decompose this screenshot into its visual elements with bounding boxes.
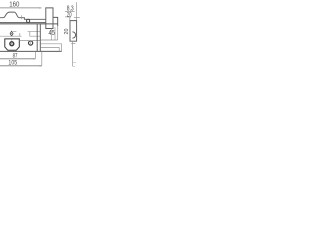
arrow 105 <box>40 65 42 66</box>
bolt protrusion side view <box>53 17 58 26</box>
extension line x41.8 <box>41 52 43 66</box>
dim hook y43.8 <box>41 44 62 52</box>
dim hook y47.5 <box>41 48 60 52</box>
dimension line 160 <box>0 7 42 9</box>
side section box <box>70 21 77 42</box>
svg-text:5: 5 <box>52 28 55 37</box>
cylinder center dot <box>11 43 12 44</box>
screw circle right <box>29 41 33 45</box>
svg-text:20: 20 <box>64 29 70 35</box>
arrow right of 160 line <box>39 7 41 8</box>
screw center dot <box>30 43 31 44</box>
knob arc in section <box>72 32 75 38</box>
plan view bottom edge <box>0 22 46 24</box>
bottom tick on centerline <box>73 63 77 67</box>
arrow 87 <box>33 58 35 59</box>
side view case box <box>46 8 53 29</box>
dim line under 8,3 <box>65 10 75 12</box>
dimension line 105 <box>0 65 42 67</box>
front view top edge <box>0 23 58 25</box>
extension vertical x69.8 <box>69 14 71 21</box>
seam line y40.6 <box>19 40 40 42</box>
keyway tick above cylinder <box>11 39 13 40</box>
diamond center dot <box>11 33 12 34</box>
cylinder shield plate <box>5 39 19 50</box>
dimension line 87 <box>0 58 35 60</box>
dim line y17.6 right <box>74 17 80 19</box>
plan view top profile with dome <box>0 12 46 19</box>
extension vertical x51.7 <box>51 29 53 40</box>
plan view screw circle <box>27 19 30 22</box>
seam line y36.2 <box>0 35 40 37</box>
section centerline below <box>72 41 74 66</box>
extension vertical x55.0 <box>54 27 56 40</box>
tick right of shield <box>19 33 21 36</box>
right extension vertical x76.6 top <box>76 2 78 20</box>
faceplate outer vertical <box>39 24 41 52</box>
extension line x35.4 <box>34 52 36 59</box>
cylinder ring <box>10 42 14 46</box>
seam segment y31.7 <box>13 32 40 37</box>
faceplate inner vertical <box>36 24 38 52</box>
arrow tick on centerline <box>71 43 75 45</box>
body bottom edge <box>0 50 62 52</box>
dim hook y40 <box>41 26 58 40</box>
plan view extension tick at x21.7 <box>21 15 23 19</box>
diamond knob <box>10 31 13 36</box>
dim line under 20 <box>65 16 71 18</box>
svg-text:160: 160 <box>9 2 19 9</box>
